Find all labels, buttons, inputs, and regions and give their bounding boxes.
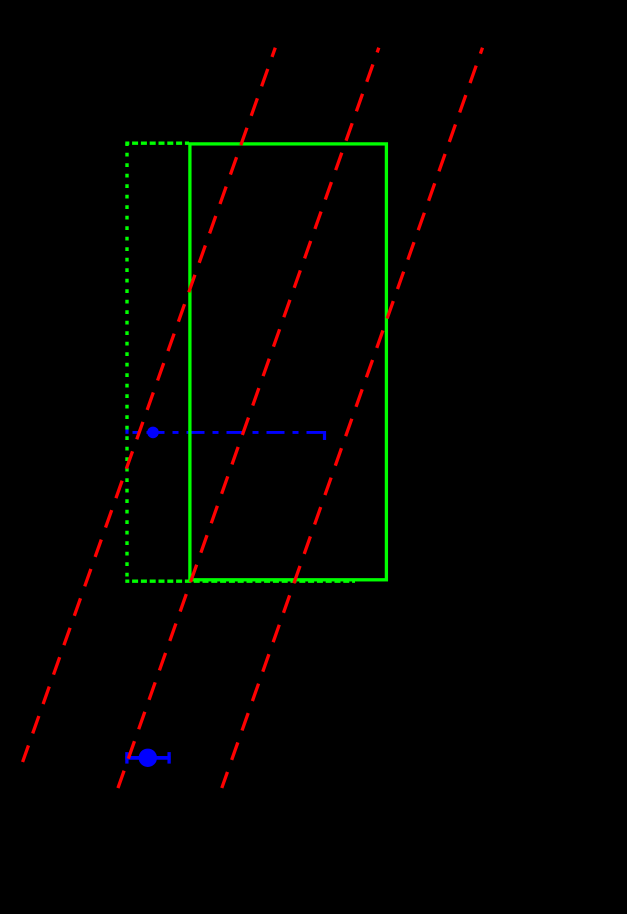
blue right end cap (upper) <box>323 431 326 440</box>
blue circle marker (upper) <box>147 427 159 439</box>
red dashed diagonal line (middle) <box>118 48 379 789</box>
green dotted rectangle: top edge <box>125 141 189 144</box>
green dotted rectangle: bottom edge <box>125 580 355 583</box>
blue left cap (lower) <box>125 752 128 764</box>
red dashed diagonal line (right) <box>222 48 483 788</box>
blue right cap (lower) <box>167 752 170 764</box>
green dotted rectangle: left edge <box>125 143 128 581</box>
red dashed diagonal line (left) <box>23 48 276 762</box>
green solid rectangle (observed region) <box>190 144 387 580</box>
blue dash-dot horizontal line (upper measurement) <box>127 431 325 434</box>
blue error bar (lower measurement) <box>125 756 170 760</box>
blue circle marker (lower) <box>139 749 157 767</box>
blue left end cap (upper) <box>125 426 128 434</box>
